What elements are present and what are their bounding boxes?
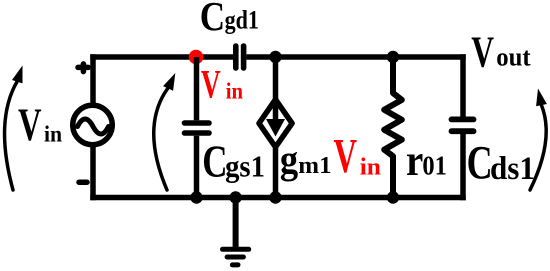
label Vin (red, gate node) [201, 62, 243, 106]
svg-text:in: in [226, 77, 243, 103]
label Cgs1 [202, 136, 265, 187]
ground [223, 198, 249, 265]
junction dot: gm branch top [269, 51, 281, 63]
svg-text:V: V [18, 98, 42, 150]
svg-text:C: C [200, 0, 225, 40]
dependent current source gm1*Vin (diamond with down arrow) [259, 57, 292, 198]
svg-text:in: in [44, 121, 63, 147]
svg-text:gs1: gs1 [225, 149, 265, 183]
svg-text:C: C [202, 136, 227, 187]
svg-text:r: r [406, 136, 423, 185]
label r01 [406, 136, 447, 185]
voltage source Vin (AC source circle with sine) [73, 105, 113, 145]
svg-text:C: C [467, 137, 493, 190]
polarity plus sign [78, 64, 88, 72]
junction dot: r01 bottom [387, 191, 399, 203]
svg-text:01: 01 [422, 150, 446, 181]
svg-text:gd1: gd1 [225, 7, 259, 35]
svg-text:V: V [201, 62, 221, 106]
label Vout [471, 28, 531, 77]
label Vin (input source) [18, 98, 63, 150]
svg-text:m1: m1 [298, 153, 331, 179]
label Vin (red, controlling voltage) [334, 130, 381, 184]
capacitor Cgs1 (gate-source) [185, 57, 210, 198]
svg-text:ds1: ds1 [490, 149, 535, 186]
junction dot: r01 top [387, 51, 399, 63]
svg-text:V: V [334, 130, 358, 184]
junction dot: Cgs1 bottom [190, 191, 202, 203]
arrow: input voltage polarity arrow (left) [5, 66, 23, 191]
wire: left branch (input source leads) [90, 54, 96, 200]
node Vin (red junction dot) [189, 50, 204, 65]
wire: bottom rail [90, 195, 466, 201]
arrow: output voltage polarity arrow (right) [530, 89, 547, 191]
label Cds1 [467, 137, 535, 190]
svg-text:g: g [280, 139, 298, 183]
label Cgd1 [200, 0, 259, 40]
svg-text:V: V [471, 28, 494, 77]
polarity minus sign [79, 179, 87, 185]
resistor r01 [384, 57, 402, 198]
junction dot: ground tap [229, 191, 241, 203]
capacitor Cgd1 (series, top rail) [236, 46, 244, 68]
wire: top rail [90, 54, 466, 60]
svg-text:in: in [360, 154, 381, 181]
svg-text:out: out [496, 42, 531, 72]
label gm1 [280, 139, 332, 183]
junction dot: gm branch bottom [269, 191, 281, 203]
arrow: Vgs polarity arrow (middle) [154, 73, 176, 190]
capacitor Cds1 (drain-source) [452, 54, 474, 200]
